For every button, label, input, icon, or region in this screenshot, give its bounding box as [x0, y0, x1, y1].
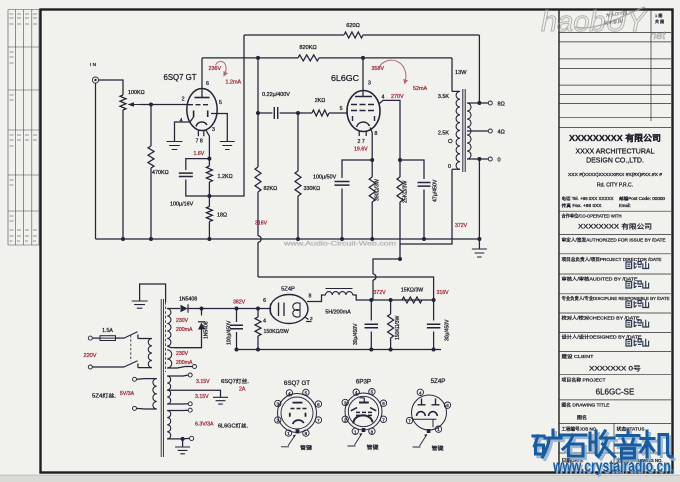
svg-text:5Z4P: 5Z4P	[431, 378, 446, 385]
svg-text:建设 CLIENT: 建设 CLIENT	[562, 353, 594, 360]
shield ground	[140, 284, 166, 302]
svg-text:7 8: 7 8	[196, 139, 203, 145]
OPT core	[463, 89, 465, 172]
PT core	[161, 299, 163, 457]
svg-text:820KΩ: 820KΩ	[299, 45, 316, 51]
svg-text:1 图: 1 图	[655, 12, 662, 18]
svg-text:220V: 220V	[83, 353, 96, 359]
bottom gray band	[0, 476, 680, 482]
6L6 cathode arc	[357, 122, 370, 127]
svg-text:邮编Post Code: 00000: 邮编Post Code: 00000	[619, 195, 666, 202]
svg-text:2 7: 2 7	[358, 139, 365, 145]
svg-text:专业负责人/专业DISCIPLINE RESPONSIBLE: 专业负责人/专业DISCIPLINE RESPONSIBLE BY /DATE	[562, 295, 670, 302]
svg-text:状态STATUS: 状态STATUS	[617, 426, 645, 432]
5Z4P socket pins	[417, 389, 423, 395]
signatures	[626, 261, 649, 268]
svg-text:I N: I N	[90, 62, 97, 68]
svg-text:8: 8	[375, 131, 378, 137]
316V riser / plate node	[257, 58, 259, 113]
svg-text:6SQ7灯丝.: 6SQ7灯丝.	[221, 377, 249, 385]
HV top lead + diode 1N5408	[167, 308, 180, 310]
5Z4P pin2 stub	[306, 318, 312, 322]
316V line to PSU	[258, 277, 434, 300]
tap 8 ohm	[467, 102, 488, 104]
cathode resistor 1.2K	[206, 166, 212, 182]
svg-text:haobUY: haobUY	[541, 6, 648, 38]
svg-text:XXXX ARCHITECTURAL: XXXX ARCHITECTURAL	[576, 149, 655, 156]
OPT secondary coil	[467, 103, 471, 159]
svg-text:390Ω/3W: 390Ω/3W	[375, 179, 381, 201]
6L6 beam plates	[353, 116, 375, 121]
6SQ7 grid dashes	[188, 104, 208, 106]
svg-text:3: 3	[368, 81, 371, 87]
resistor 82K	[257, 113, 259, 167]
resistor 18R	[206, 207, 212, 222]
svg-text:合作单位/CO-OPERATED WITH: 合作单位/CO-OPERATED WITH	[562, 213, 622, 220]
svg-text:图名: 图名	[577, 414, 587, 421]
left revision strip table	[8, 10, 39, 246]
svg-text:1.5A: 1.5A	[102, 328, 113, 334]
PSU ground bus	[237, 349, 442, 351]
svg-text:25KΩ/3W: 25KΩ/3W	[403, 181, 409, 203]
svg-text:3.5K: 3.5K	[438, 94, 449, 100]
wire jack sleeve to ground bus	[95, 83, 97, 239]
svg-text:管键: 管键	[300, 444, 312, 452]
svg-text:8Ω: 8Ω	[498, 102, 505, 108]
hop over ground bus	[258, 236, 261, 242]
watermark 矿石收音机	[533, 430, 672, 458]
svg-text:www.Audio-Circuit-Web.com: www.Audio-Circuit-Web.com	[283, 242, 396, 248]
svg-text:6: 6	[263, 298, 266, 304]
svg-text:6: 6	[206, 81, 209, 87]
svg-text:www.crystalradio.cn.: www.crystalradio.cn.	[552, 458, 674, 476]
title block texts	[562, 12, 670, 464]
red arrow 1.2mA	[216, 61, 227, 74]
feedback riser	[478, 35, 480, 103]
dropper 15K/3W	[402, 297, 422, 303]
6L6 heater stubs	[359, 131, 366, 137]
5Z4P anodes	[293, 303, 300, 318]
svg-text:150KΩ/3W: 150KΩ/3W	[395, 315, 401, 340]
svg-text:316V: 316V	[255, 221, 268, 227]
OPT UL tap	[449, 139, 453, 143]
svg-text:13W: 13W	[455, 70, 467, 76]
svg-text:5Z4P: 5Z4P	[281, 287, 295, 293]
6SQ7 pin4 ground	[175, 117, 194, 142]
PT 6.3V winding 6L6	[167, 411, 171, 439]
grid leak resistor 470K	[150, 105, 152, 147]
svg-text:管键: 管键	[432, 444, 444, 452]
svg-text:Rd. CITY P.R.C.: Rd. CITY P.R.C.	[597, 183, 633, 189]
svg-text:3.15V: 3.15V	[196, 379, 210, 385]
bleeder 150K/3W	[388, 314, 394, 338]
6SQ7 pin5 ground	[211, 114, 227, 142]
watermark 矿石收音机 shadow	[535, 433, 674, 461]
svg-text:230V: 230V	[176, 351, 189, 357]
mains switch	[92, 366, 124, 368]
svg-text:XXXXXXX 0号: XXXXXXX 0号	[589, 365, 642, 373]
svg-text:电话 Tel. +86 0XX XXXXX: 电话 Tel. +86 0XX XXXXX	[562, 195, 614, 202]
cathode resistor 390R/3W	[369, 177, 375, 202]
resistor 820K	[298, 55, 319, 61]
svg-text:0: 0	[498, 158, 501, 164]
svg-text:2.5K: 2.5K	[438, 131, 449, 137]
OPT primary coil	[452, 91, 460, 169]
6SQ7 key	[296, 429, 300, 433]
svg-text:270V: 270V	[391, 94, 404, 100]
svg-text:316V: 316V	[437, 290, 450, 296]
svg-text:30μ/450V: 30μ/450V	[353, 323, 359, 345]
svg-text:1N5408: 1N5408	[204, 321, 210, 339]
svg-text:372V: 372V	[374, 290, 387, 296]
6SQ7 key arrow	[281, 435, 296, 447]
OPT bottom routing to 372V	[373, 169, 452, 274]
svg-text:6L6GC: 6L6GC	[331, 74, 359, 83]
6L6 plate bar	[355, 96, 372, 98]
svg-text:XXXXXXXXX 有限公司: XXXXXXXXX 有限公司	[569, 133, 661, 143]
6P3P key arrow	[348, 433, 363, 446]
svg-text:8: 8	[309, 294, 312, 300]
svg-text:200mA: 200mA	[176, 360, 193, 366]
svg-text:4: 4	[263, 319, 266, 325]
svg-text:4: 4	[382, 95, 385, 101]
svg-text:传真 Fax. +86 0XX: 传真 Fax. +86 0XX	[562, 202, 602, 209]
bottom ground	[182, 439, 184, 447]
6L6 control grid dashes	[351, 104, 374, 106]
mains terminals	[88, 336, 92, 340]
svg-text:620Ω: 620Ω	[346, 23, 360, 29]
svg-text:4: 4	[180, 118, 183, 124]
6SQ7 cathode arc	[196, 122, 207, 126]
amp ground bus	[96, 238, 480, 240]
svg-text:15KΩ/3W: 15KΩ/3W	[401, 288, 423, 294]
red arrow 52mA	[379, 60, 406, 82]
screen wire 270V	[380, 100, 401, 160]
svg-text:2: 2	[182, 97, 185, 103]
title block grid lines	[559, 10, 671, 473]
filter cap 100u/450V	[236, 309, 238, 323]
svg-text:项目名称 PROJECT: 项目名称 PROJECT	[562, 377, 606, 384]
6P3P socket pins	[353, 389, 359, 395]
title block left border	[558, 10, 560, 473]
CT ground	[167, 390, 220, 397]
svg-text:19.6V: 19.6V	[354, 147, 368, 153]
PT HV winding	[167, 309, 171, 347]
HV center tap	[167, 346, 201, 348]
svg-text:1.2mA: 1.2mA	[226, 80, 242, 86]
PT 6.3VCT winding	[167, 376, 171, 404]
6P3P key	[362, 428, 366, 432]
cathode bypass 100u/50V	[342, 160, 372, 178]
svg-text:管键: 管键	[367, 443, 379, 451]
svg-text:1.6V: 1.6V	[194, 151, 205, 157]
diode 1N5408 vertical	[201, 309, 203, 316]
svg-text:2KΩ: 2KΩ	[315, 98, 326, 104]
PT primary coil	[148, 339, 152, 368]
bus end ground symbol	[478, 239, 480, 249]
svg-text:6SQ7 GT: 6SQ7 GT	[284, 380, 310, 387]
6SQ7 diode plates	[194, 111, 208, 118]
svg-text:382V: 382V	[233, 300, 246, 306]
svg-text:230V: 230V	[176, 318, 189, 324]
svg-text:6L6GC灯丝.: 6L6GC灯丝.	[218, 422, 248, 430]
0 tap ground riser	[478, 159, 480, 239]
svg-text:6P3P: 6P3P	[356, 379, 371, 386]
svg-text:52mA: 52mA	[413, 86, 427, 92]
potentiometer 100K	[120, 95, 126, 110]
svg-text:共 图: 共 图	[655, 18, 664, 24]
OPT primary riser	[451, 58, 453, 92]
PT 5V winding	[153, 379, 157, 409]
svg-text:项目总负责人/项目PROJECT DIRECTOR /DAT: 项目总负责人/项目PROJECT DIRECTOR /DATE	[562, 256, 662, 263]
6P3P socket internals	[360, 398, 365, 403]
svg-text:图名 DRAWING TITLE: 图名 DRAWING TITLE	[562, 402, 610, 409]
svg-text:DESIGN CO.,LTD.: DESIGN CO.,LTD.	[586, 158, 644, 165]
5Z4P key	[427, 429, 431, 433]
svg-text:5V/3A: 5V/3A	[120, 391, 135, 397]
svg-text:100μ/50V: 100μ/50V	[313, 175, 337, 181]
svg-text:5Z4灯丝.: 5Z4灯丝.	[92, 392, 116, 400]
resistor 330K	[297, 113, 299, 171]
6SQ7 cathode node	[206, 130, 210, 159]
5Z4P pin8	[307, 295, 326, 302]
svg-text:372V: 372V	[455, 223, 468, 229]
svg-text:330KΩ: 330KΩ	[304, 186, 321, 192]
svg-text:470KΩ: 470KΩ	[152, 170, 169, 176]
svg-text:100μ/16V: 100μ/16V	[170, 202, 194, 208]
svg-text:100KΩ: 100KΩ	[128, 90, 145, 96]
svg-text:6L6GC-SE: 6L6GC-SE	[596, 388, 635, 397]
svg-text:0.22μ/400V: 0.22μ/400V	[262, 92, 290, 98]
tap 0	[467, 158, 488, 160]
bypass cap 100u/16V	[186, 159, 210, 170]
6SQ7 heater stubs 7 8	[198, 130, 203, 136]
svg-text:0: 0	[448, 164, 451, 170]
svg-text:30μ/450V: 30μ/450V	[445, 319, 451, 341]
svg-text:6.3V/3A: 6.3V/3A	[195, 422, 214, 428]
svg-text:5: 5	[219, 100, 222, 106]
5Z4P filament	[279, 303, 285, 317]
svg-text:2: 2	[310, 316, 313, 322]
6SQ7 socket pins	[286, 390, 292, 396]
svg-text:236V: 236V	[209, 66, 222, 72]
filter cap 30u/450V	[433, 300, 435, 321]
svg-text:3.15V: 3.15V	[195, 394, 209, 400]
5Z4P key arrow	[413, 434, 428, 447]
svg-text:3: 3	[212, 127, 215, 133]
watermark haobuy top right	[541, 6, 666, 42]
plate rail with 820K	[202, 57, 298, 59]
svg-text:18Ω: 18Ω	[217, 213, 227, 219]
svg-text:XXX #(XXXX)XXXXX#XX #X(#X)#XX.: XXX #(XXXX)XXXXX#XX #X(#X)#XX.#X #	[568, 172, 663, 177]
6SQ7 socket internals	[293, 402, 303, 404]
svg-text:100μ/450V: 100μ/450V	[227, 320, 233, 345]
svg-text:150KΩ/3W: 150KΩ/3W	[264, 329, 289, 335]
screen bypass 47u/450V	[400, 160, 424, 179]
svg-text:2A: 2A	[239, 387, 246, 393]
6SQ7 plate bar	[195, 97, 210, 99]
fuse 1.5A	[92, 337, 100, 339]
filter cap 30u/450V	[370, 300, 372, 321]
pot wiper arrow	[131, 104, 140, 106]
bleeder 150K/3W	[255, 317, 261, 336]
svg-text:82KΩ: 82KΩ	[264, 186, 278, 192]
6L6 screen grid dashes	[351, 110, 374, 112]
PSU rail 372V to 316V	[371, 299, 433, 301]
HV bottom lead	[167, 367, 192, 369]
svg-text:审定人/签发AUTHORIZED FOR ISSUE BY: 审定人/签发AUTHORIZED FOR ISSUE BY /DATE	[562, 237, 666, 244]
svg-text:1.2KΩ: 1.2KΩ	[218, 174, 233, 180]
tap 4 ohm	[467, 130, 488, 132]
svg-text:47μ/450V: 47μ/450V	[433, 179, 439, 202]
choke 5H/200mA	[326, 288, 353, 290]
grid stopper 2K	[312, 110, 329, 116]
svg-text:XXXXXXXX 有限公司: XXXXXXXX 有限公司	[578, 222, 652, 231]
svg-text:net: net	[650, 30, 666, 42]
hop over 316V line	[373, 274, 376, 280]
coupling cap 0.22u/400V	[258, 112, 272, 114]
svg-text:200mA: 200mA	[176, 327, 193, 333]
svg-text:Email:: Email:	[619, 203, 631, 208]
svg-text:5H/200mA: 5H/200mA	[325, 310, 351, 316]
svg-text:5: 5	[340, 106, 343, 112]
svg-text:358V: 358V	[372, 66, 385, 72]
svg-text:1N5408: 1N5408	[179, 297, 197, 303]
5Z4P socket internals	[418, 399, 426, 406]
wire jack tip to pot	[99, 80, 123, 95]
feedback wire to cathode	[209, 35, 244, 196]
svg-text:4Ω: 4Ω	[498, 130, 505, 136]
screen dropper 25K/3W	[397, 177, 403, 202]
6L6 cathode node	[370, 128, 372, 161]
feedback resistor 620R	[244, 34, 344, 36]
svg-text:6SQ7 GT: 6SQ7 GT	[164, 73, 197, 82]
svg-text:工程编号JOB NO.: 工程编号JOB NO.	[562, 426, 598, 433]
